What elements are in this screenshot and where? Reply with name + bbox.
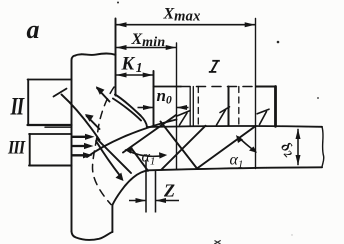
svg-text:δ2: δ2 [276, 139, 298, 161]
svg-text:α1: α1 [230, 152, 244, 171]
svg-text:III: III [7, 136, 26, 158]
svg-text:Z: Z [163, 181, 175, 201]
svg-text:Xmin: Xmin [131, 31, 166, 50]
svg-text:Xmax: Xmax [163, 6, 201, 25]
svg-text:п0: п0 [157, 86, 172, 107]
svg-text:II: II [10, 92, 26, 120]
svg-text:K1: K1 [121, 54, 143, 76]
svg-text:α1: α1 [142, 149, 156, 168]
svg-text:a: a [27, 15, 40, 44]
